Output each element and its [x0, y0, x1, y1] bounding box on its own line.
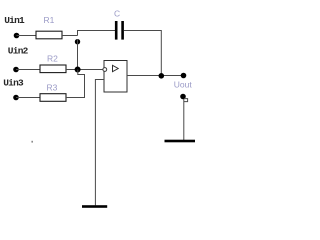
svg-text:Uin2: Uin2 — [8, 45, 29, 56]
wire Uin1 to R1 — [17, 35, 37, 37]
node Uin1 terminal dot — [14, 33, 20, 39]
svg-text:R2: R2 — [47, 53, 58, 63]
wire down to right ground — [183, 99, 185, 140]
wire capacitor to feedback corner — [124, 31, 161, 76]
svg-text:Uin3: Uin3 — [3, 77, 24, 88]
capacitor C right plate — [121, 21, 124, 40]
node feedback junction dot — [159, 73, 165, 79]
wire terminal hook — [184, 99, 188, 102]
wire Uin3 to R3 — [16, 97, 40, 99]
op-amp U1 triangle symbol — [113, 65, 119, 71]
node summing junction dot — [75, 67, 81, 73]
svg-text:C: C — [114, 8, 120, 18]
wire op-amp output — [127, 75, 183, 77]
svg-text:R1: R1 — [44, 15, 55, 25]
wire Uin2 to R2 — [16, 69, 40, 71]
resistor R1 — [36, 31, 62, 39]
node junction dot R1/C inverting branch — [75, 39, 80, 44]
node Uin3 terminal dot — [13, 95, 19, 101]
resistor R3 — [40, 94, 66, 102]
wire R3 up to summing junction — [66, 70, 85, 98]
wire inverting branch vertical — [77, 39, 79, 70]
svg-text:R3: R3 — [47, 83, 58, 93]
node Uin2 terminal dot — [13, 67, 19, 73]
ground bottom bar — [82, 205, 107, 208]
wire corner up to capacitor lead — [78, 31, 116, 36]
resistor R2 — [40, 65, 66, 73]
wire non-inverting input — [95, 80, 104, 206]
op-amp U1 body — [104, 61, 127, 93]
node Uout ground terminal dot — [180, 94, 186, 100]
stray mark artifact — [31, 141, 33, 143]
svg-text:Uin1: Uin1 — [4, 15, 25, 26]
op-amp U1 inverting input circle — [103, 68, 107, 72]
ground right bar — [165, 140, 196, 143]
wire R1 to corner — [62, 35, 78, 37]
wire R2 to op-amp inverting input — [66, 69, 103, 71]
capacitor C left plate — [115, 21, 118, 40]
node Uout terminal dot — [181, 73, 187, 79]
svg-text:Uout: Uout — [174, 79, 193, 89]
